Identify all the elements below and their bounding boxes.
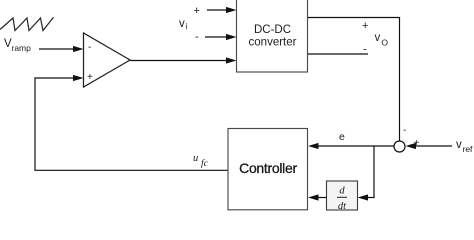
svg-text:O: O	[381, 38, 388, 48]
wire V_ramp to comparator inverting input	[39, 46, 84, 52]
wire d/dt output to Controller	[308, 194, 327, 200]
label v_ref	[456, 139, 473, 154]
svg-text:i: i	[186, 21, 188, 31]
svg-text:+: +	[194, 5, 200, 17]
label v_O	[375, 32, 389, 48]
svg-text:d: d	[339, 186, 345, 197]
wire v_ref input	[406, 143, 453, 149]
svg-text:-: -	[88, 42, 91, 53]
svg-text:fc: fc	[201, 158, 209, 169]
summing junction	[394, 141, 405, 152]
svg-text:+: +	[87, 72, 93, 83]
svg-text:converter: converter	[249, 37, 297, 49]
wire v_i negative input	[205, 34, 237, 40]
svg-text:ramp: ramp	[12, 43, 32, 53]
wire v_i positive input	[207, 7, 237, 13]
svg-text:v: v	[456, 139, 462, 151]
svg-text:e: e	[339, 131, 345, 143]
wire u_fc feedback from Controller to comparator + input	[35, 75, 228, 170]
svg-text:-: -	[195, 31, 199, 43]
wire e from summing junction to Controller	[308, 143, 394, 149]
svg-text:-: -	[403, 125, 406, 136]
label V_ramp	[4, 38, 31, 53]
comparator U1	[84, 33, 131, 87]
wire v_O positive output and feedback down to summing junction	[308, 18, 400, 142]
block d/dt differentiator	[327, 181, 358, 212]
label v_i	[179, 18, 188, 31]
svg-text:+: +	[362, 20, 368, 32]
label u_fc	[193, 153, 209, 169]
svg-text:u: u	[193, 153, 198, 164]
block DC-DC converter	[237, 0, 308, 72]
svg-text:ref: ref	[463, 144, 474, 154]
svg-text:DC-DC: DC-DC	[254, 24, 291, 36]
svg-text:Controller: Controller	[239, 160, 297, 176]
wire comparator output to DC-DC converter	[130, 57, 237, 63]
sawtooth ramp waveform	[0, 17, 54, 30]
svg-text:v: v	[179, 18, 185, 30]
svg-text:dt: dt	[338, 201, 347, 212]
block Controller	[228, 129, 308, 210]
wire v_O negative output	[308, 53, 368, 55]
wire branch from e down to d/dt block	[358, 146, 375, 201]
svg-text:v: v	[375, 32, 381, 44]
